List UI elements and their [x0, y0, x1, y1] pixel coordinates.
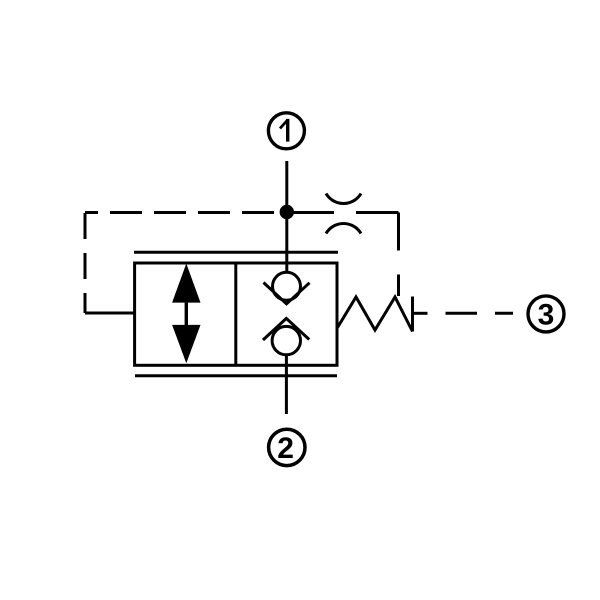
pilot line (dashed): corner down to spring top — [397, 213, 400, 297]
infinite positioning line (bottom) — [135, 374, 337, 377]
wire: dashed segment junction to orifice — [292, 211, 334, 214]
spring seat bar — [411, 297, 414, 332]
orifice (restriction) upper arc — [326, 194, 361, 204]
check valve lower: ball — [272, 326, 300, 354]
pilot line (dashed): left vertical drop — [84, 213, 87, 313]
pilot line (dashed): to port 3 — [446, 312, 514, 315]
orifice (restriction) lower arc — [326, 223, 361, 233]
port circle 1 — [268, 113, 304, 149]
wire: lower check valve to port 2 — [285, 355, 288, 414]
check valve upper: ball — [273, 272, 301, 300]
envelope divider — [234, 263, 237, 365]
wire: pilot to spool left end — [85, 312, 134, 315]
junction node (pilot tap) — [280, 205, 294, 219]
svg-text:2: 2 — [277, 432, 294, 465]
check valve lower: seat — [263, 318, 309, 340]
flow arrow (left cell, double headed) — [172, 264, 200, 364]
valve envelope (body) — [135, 263, 337, 365]
spring — [338, 297, 413, 332]
wire: orifice to top-right corner — [356, 211, 399, 214]
check valve upper: seat — [264, 283, 310, 304]
wire: junction into valve body (to upper check valve) — [285, 212, 288, 273]
wire: port 1 down to junction — [285, 161, 288, 207]
wire: spring seat to dashes — [413, 312, 428, 315]
svg-text:3: 3 — [538, 299, 555, 332]
pilot line (dashed): left branch, junction to corner and down — [85, 211, 280, 214]
port circle 2 — [269, 429, 305, 465]
infinite positioning line (top) — [134, 251, 338, 254]
port circle 3 — [528, 296, 564, 332]
